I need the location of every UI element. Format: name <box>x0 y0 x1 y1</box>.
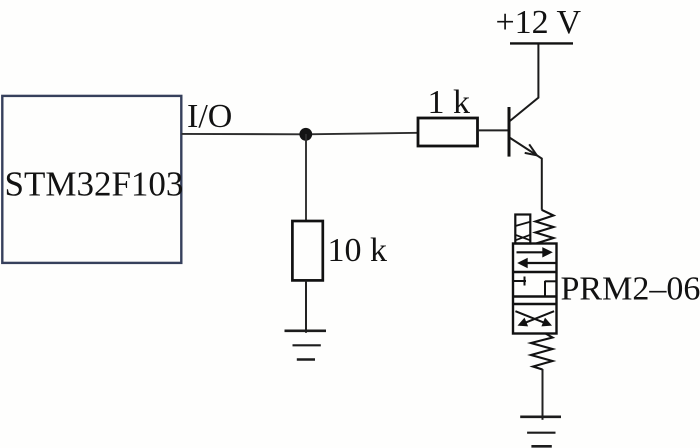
svg-text:10 k: 10 k <box>328 232 388 269</box>
resistor R 1 k <box>418 118 478 146</box>
svg-text:PRM2–06: PRM2–06 <box>561 270 700 307</box>
transistor Q1 emitter with arrow <box>510 138 542 210</box>
wire 1k resistor to transistor base <box>478 129 509 131</box>
valve solenoid box <box>515 215 530 244</box>
junction node <box>299 128 312 141</box>
svg-text:+12 V: +12 V <box>496 4 582 41</box>
svg-text:1 k: 1 k <box>428 84 471 121</box>
wire valve to ground <box>542 369 544 420</box>
resistor 10 k <box>292 221 322 280</box>
svg-text:STM32F103: STM32F103 <box>5 165 184 204</box>
+12 V supply bar <box>510 42 573 44</box>
valve crossed arrows cell <box>515 311 554 326</box>
MCU box STM32F103 <box>2 96 183 263</box>
svg-text:I/O: I/O <box>187 98 232 135</box>
valve cell arrow left <box>517 258 555 269</box>
valve bottom spring <box>531 334 553 370</box>
valve center position port marks <box>514 277 557 297</box>
valve cell arrow right <box>517 247 553 257</box>
transistor Q1 collector <box>510 44 538 121</box>
wire from I/O pin to 1k resistor <box>182 133 419 135</box>
ground (right) <box>520 417 561 447</box>
wire 10k resistor to ground <box>305 280 307 332</box>
valve top spring <box>536 210 554 244</box>
wire junction to 10k resistor <box>305 134 307 222</box>
transistor Q1 base bar <box>508 107 511 157</box>
ground (left) <box>285 331 327 360</box>
valve body PRM2-06 <box>513 244 557 334</box>
